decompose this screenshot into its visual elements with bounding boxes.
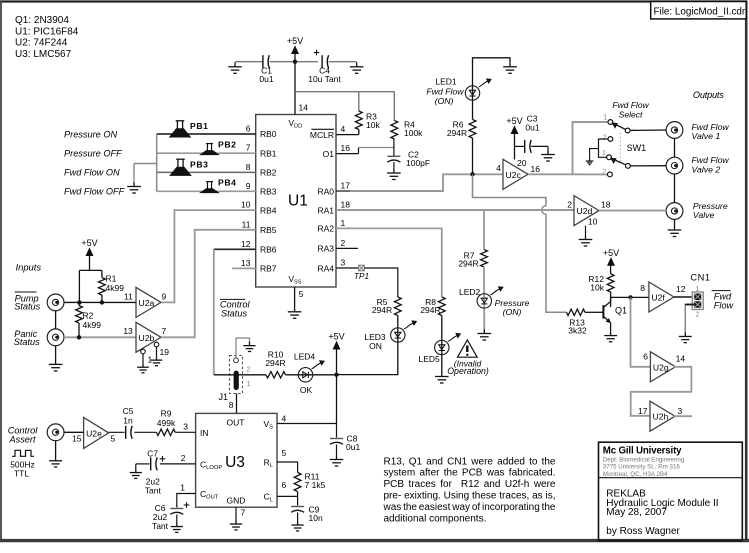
svg-text:Valve: Valve [693, 210, 715, 220]
svg-text:U2: 74F244: U2: 74F244 [15, 38, 68, 49]
svg-text:Flow: Flow [714, 301, 735, 311]
svg-text:7: 7 [246, 143, 251, 153]
svg-text:1: 1 [696, 286, 700, 293]
svg-text:by Ross Wagner: by Ross Wagner [606, 526, 680, 537]
svg-text:9: 9 [162, 291, 167, 301]
svg-text:(ON): (ON) [503, 307, 522, 317]
svg-text:100pF: 100pF [406, 158, 430, 168]
svg-text:U2e: U2e [86, 428, 102, 438]
svg-text:0u1: 0u1 [346, 442, 360, 452]
svg-text:20: 20 [517, 158, 527, 168]
svg-text:Select: Select [619, 109, 643, 119]
svg-text:11: 11 [124, 291, 133, 301]
svg-text:3: 3 [183, 421, 188, 431]
svg-text:4k99: 4k99 [106, 283, 125, 293]
svg-text:+5V: +5V [328, 332, 344, 342]
svg-text:PB1: PB1 [190, 121, 209, 131]
svg-text:U3: U3 [225, 454, 245, 471]
svg-text:PCB traces for R12 and U2f-h: PCB traces for R12 and U2f-h were [384, 479, 556, 490]
svg-text:IN: IN [200, 428, 209, 438]
svg-text:10k: 10k [590, 283, 604, 293]
svg-text:O1: O1 [323, 149, 335, 159]
svg-text:4: 4 [341, 124, 346, 134]
svg-text:R2: R2 [83, 311, 94, 321]
svg-text:2: 2 [696, 312, 700, 319]
svg-text:Pressure OFF: Pressure OFF [64, 149, 123, 159]
svg-text:5: 5 [299, 289, 304, 299]
svg-text:Dept. Biomedical Engineering: Dept. Biomedical Engineering [603, 456, 685, 463]
svg-text:Inputs: Inputs [16, 262, 42, 273]
svg-text:0u1: 0u1 [525, 123, 539, 133]
svg-text:GND: GND [227, 495, 246, 505]
svg-text:16: 16 [341, 143, 351, 153]
svg-text:TTL: TTL [14, 468, 29, 478]
svg-text:U1: U1 [288, 193, 308, 210]
svg-text:8: 8 [246, 162, 251, 172]
svg-text:Outputs: Outputs [693, 90, 724, 100]
svg-text:RA4: RA4 [317, 263, 334, 273]
svg-text:2: 2 [181, 453, 186, 463]
svg-text:OUT: OUT [227, 418, 245, 428]
svg-text:Status: Status [14, 337, 40, 347]
svg-text:5: 5 [282, 448, 287, 458]
svg-text:3: 3 [678, 406, 683, 416]
svg-text:PB3: PB3 [190, 160, 209, 170]
svg-text:ON: ON [369, 341, 382, 351]
svg-text:PB2: PB2 [218, 140, 237, 150]
svg-text:13: 13 [241, 258, 251, 268]
svg-text:U2f: U2f [651, 293, 665, 303]
svg-text:10k: 10k [366, 120, 380, 130]
svg-text:6: 6 [282, 480, 287, 490]
svg-text:2: 2 [602, 167, 606, 176]
svg-text:pre- exixting. Using these tra: pre- exixting. Using these traces, as is… [384, 491, 556, 502]
svg-text:Status: Status [14, 302, 40, 312]
svg-text:C7: C7 [147, 448, 158, 458]
svg-text:14: 14 [299, 103, 309, 113]
svg-text:294R: 294R [447, 128, 467, 138]
svg-text:Tant: Tant [152, 521, 169, 531]
svg-text:File: LogicMod_II.cdr: File: LogicMod_II.cdr [654, 7, 746, 18]
svg-text:7: 7 [162, 326, 167, 336]
svg-text:PB4: PB4 [218, 178, 237, 188]
svg-text:LED4: LED4 [294, 352, 316, 362]
svg-text:10: 10 [588, 217, 598, 227]
svg-text:17: 17 [638, 406, 648, 416]
svg-text:1: 1 [341, 218, 346, 228]
svg-text:U2c: U2c [506, 170, 522, 180]
svg-text:3775 University St., Rm 316: 3775 University St., Rm 316 [603, 464, 681, 471]
svg-text:1n: 1n [123, 415, 133, 425]
svg-text:RB4: RB4 [260, 205, 277, 215]
svg-text:1: 1 [247, 379, 251, 388]
svg-text:10u Tant: 10u Tant [308, 74, 341, 84]
svg-text:8: 8 [229, 400, 234, 410]
svg-text:TP1: TP1 [354, 272, 369, 281]
svg-text:18: 18 [341, 200, 351, 210]
svg-text:U1: PIC16F84: U1: PIC16F84 [15, 26, 79, 37]
svg-text:RA0: RA0 [317, 186, 334, 196]
svg-text:10n: 10n [309, 513, 323, 523]
svg-text:7: 7 [241, 508, 246, 518]
svg-text:15: 15 [72, 434, 82, 444]
svg-text:was the easiest way of incorpo: was the easiest way of incorporating the [383, 502, 556, 513]
svg-text:RB0: RB0 [260, 129, 277, 139]
svg-text:4k99: 4k99 [83, 320, 102, 330]
svg-text:May 28, 2007: May 28, 2007 [606, 507, 667, 518]
svg-text:6: 6 [643, 352, 648, 362]
svg-text:294R: 294R [265, 358, 285, 368]
svg-text:2: 2 [341, 238, 346, 248]
svg-text:Mc Gill University: Mc Gill University [603, 446, 682, 457]
svg-text:Fwd Flow OFF: Fwd Flow OFF [64, 187, 126, 197]
svg-text:Q1: 2N3904: Q1: 2N3904 [15, 15, 69, 26]
svg-text:system after the PCB was fabri: system after the PCB was fabricated. [384, 468, 556, 479]
svg-text:12: 12 [676, 284, 686, 294]
svg-text:RA1: RA1 [317, 205, 334, 215]
svg-text:LED5: LED5 [419, 354, 441, 364]
svg-text:LED1: LED1 [435, 77, 457, 87]
svg-text:7 1k5: 7 1k5 [305, 480, 326, 490]
svg-text:Tant: Tant [145, 485, 162, 495]
svg-text:SW1: SW1 [627, 143, 647, 153]
svg-text:499k: 499k [157, 418, 176, 428]
svg-text:4: 4 [282, 414, 287, 424]
svg-text:18: 18 [601, 200, 611, 210]
svg-text:Montreal, QC, H3A 2B4: Montreal, QC, H3A 2B4 [603, 471, 668, 478]
svg-text:OK: OK [300, 385, 313, 395]
svg-text:RB1: RB1 [260, 148, 277, 158]
svg-text:R13, Q1 and CN1 were added to: R13, Q1 and CN1 were added to the [384, 456, 556, 467]
svg-text:5: 5 [111, 434, 116, 444]
svg-text:U2b: U2b [139, 333, 155, 343]
svg-text:RB3: RB3 [260, 187, 277, 197]
svg-text:Pressure ON: Pressure ON [64, 129, 117, 139]
svg-text:11: 11 [242, 219, 251, 229]
svg-text:2: 2 [247, 365, 251, 374]
svg-text:RB5: RB5 [260, 225, 277, 235]
svg-text:14: 14 [676, 354, 686, 364]
svg-text:MCLR: MCLR [310, 130, 334, 140]
svg-text:R1: R1 [106, 274, 117, 284]
svg-text:1: 1 [180, 483, 185, 493]
svg-text:J1: J1 [219, 392, 229, 402]
svg-text:U2h: U2h [653, 412, 669, 422]
svg-text:2: 2 [567, 200, 572, 210]
svg-text:9: 9 [246, 181, 251, 191]
svg-text:+5V: +5V [287, 36, 303, 46]
svg-text:U2d: U2d [577, 206, 593, 216]
svg-text:4: 4 [496, 163, 501, 173]
svg-text:CN1: CN1 [690, 273, 710, 283]
svg-text:RA3: RA3 [317, 244, 334, 254]
svg-text:Assert: Assert [8, 435, 35, 445]
svg-text:100k: 100k [404, 128, 423, 138]
svg-text:(ON): (ON) [435, 96, 454, 106]
svg-text:1: 1 [602, 148, 606, 157]
svg-text:RB2: RB2 [260, 168, 277, 178]
svg-text:8: 8 [640, 283, 645, 293]
svg-text:13: 13 [123, 326, 133, 336]
svg-text:+5V: +5V [81, 238, 97, 248]
svg-text:additional components.: additional components. [384, 513, 487, 524]
svg-text:LED2: LED2 [459, 287, 481, 297]
svg-text:3: 3 [341, 258, 346, 268]
svg-text:Status: Status [221, 308, 247, 318]
svg-text:Valve 2: Valve 2 [692, 164, 721, 174]
svg-text:17: 17 [341, 181, 351, 191]
svg-text:19: 19 [160, 347, 170, 357]
svg-text:+5V: +5V [506, 116, 522, 126]
svg-text:RB6: RB6 [260, 245, 277, 255]
svg-text:Q1: Q1 [615, 306, 627, 316]
svg-text:12: 12 [241, 239, 251, 249]
svg-text:3k32: 3k32 [568, 325, 587, 335]
svg-text:RA2: RA2 [317, 224, 334, 234]
svg-text:294R: 294R [372, 305, 392, 315]
svg-text:U3: LMC567: U3: LMC567 [15, 49, 72, 60]
svg-text:294R: 294R [458, 259, 478, 269]
svg-text:Fwd Flow: Fwd Flow [426, 86, 464, 96]
svg-text:Valve 1: Valve 1 [692, 131, 721, 141]
svg-text:0u1: 0u1 [259, 74, 273, 84]
svg-text:294R: 294R [420, 305, 440, 315]
svg-text:16: 16 [531, 164, 541, 174]
svg-text:1: 1 [603, 113, 607, 122]
svg-text:6: 6 [246, 124, 251, 134]
svg-text:+5V: +5V [603, 248, 619, 258]
svg-text:2: 2 [603, 132, 607, 141]
svg-text:U2g: U2g [653, 362, 669, 372]
svg-text:Fwd Flow ON: Fwd Flow ON [64, 168, 120, 178]
svg-text:R9: R9 [161, 409, 172, 419]
svg-text:Operation): Operation) [447, 366, 489, 376]
svg-text:RB7: RB7 [260, 264, 277, 274]
svg-text:10: 10 [241, 200, 251, 210]
svg-text:U2a: U2a [139, 298, 155, 308]
